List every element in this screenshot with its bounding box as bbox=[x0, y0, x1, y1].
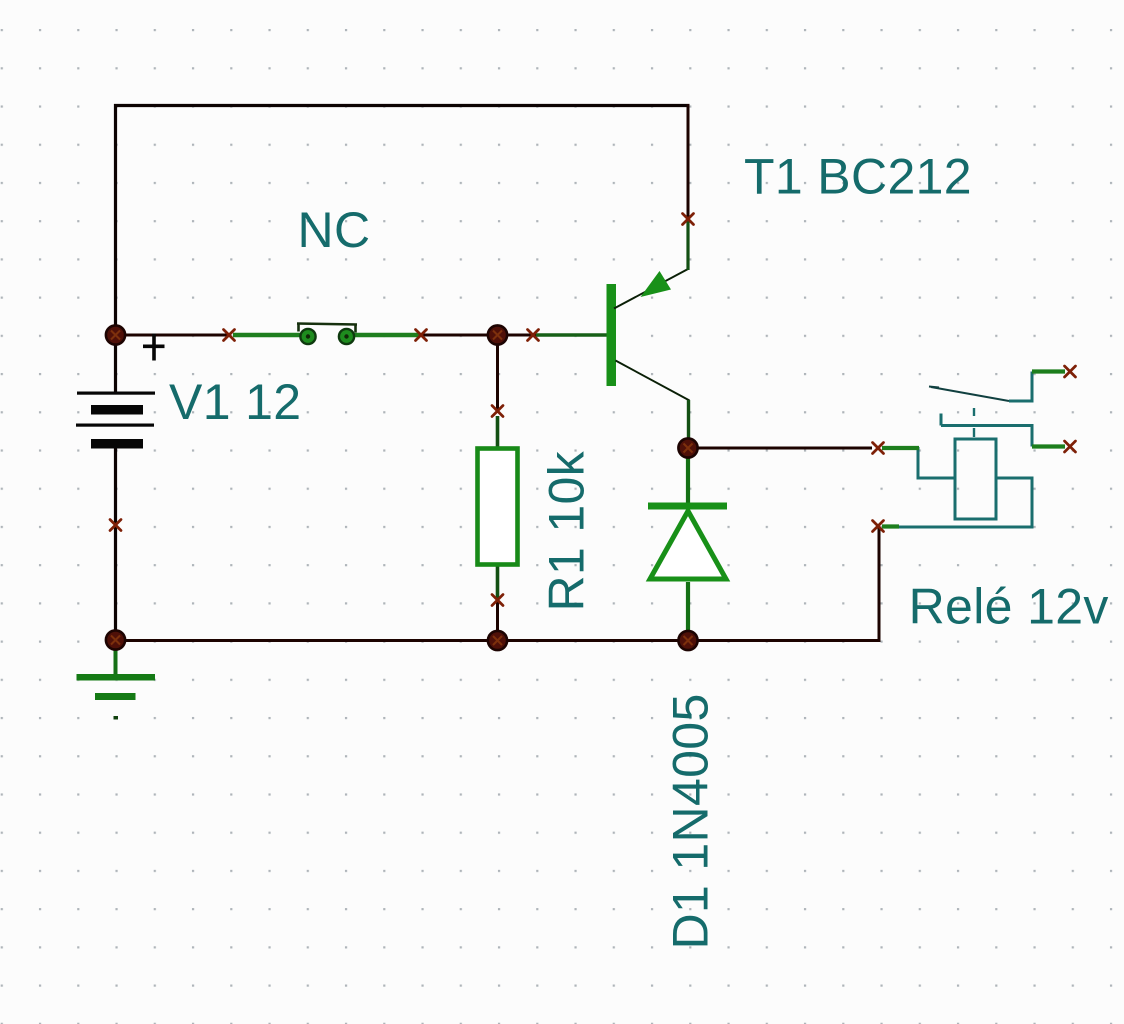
transistor emitter arrow bbox=[641, 271, 672, 297]
wire top horizontal bbox=[114, 104, 690, 107]
svg-text:V1 12: V1 12 bbox=[169, 374, 301, 430]
svg-text:Relé 12v: Relé 12v bbox=[909, 579, 1109, 635]
battery V1 bbox=[76, 392, 155, 449]
diode D1 leads bbox=[686, 448, 690, 503]
junction node diode bottom bbox=[678, 631, 697, 650]
transistor collector diagonal bbox=[616, 361, 690, 401]
svg-text:R1 10k: R1 10k bbox=[539, 450, 595, 611]
battery plus sign bbox=[143, 334, 165, 361]
pin x marks bbox=[224, 330, 235, 341]
transistor collector lead green bbox=[687, 400, 690, 449]
ground bar 1 bbox=[77, 674, 156, 681]
switch lever bar bbox=[297, 324, 357, 333]
diode D1 cathode bar bbox=[648, 503, 727, 510]
wire top-right vertical to emitter pin bbox=[687, 104, 690, 219]
wire battery junction to switch bbox=[116, 334, 230, 337]
wire switch to junction node B bbox=[421, 334, 537, 337]
ground bar 2 bbox=[95, 693, 136, 700]
ground stub bbox=[114, 648, 118, 675]
switch NC green wire right bbox=[353, 333, 419, 338]
diode D1 triangle bbox=[650, 511, 726, 579]
svg-text:T1 BC212: T1 BC212 bbox=[744, 149, 972, 205]
switch NC green wire left bbox=[233, 333, 301, 338]
relay left lead teal bbox=[918, 447, 955, 478]
ground bar 3 dot bbox=[114, 716, 119, 720]
wire battery minus down bbox=[114, 448, 117, 640]
wire bottom bus bbox=[116, 639, 880, 642]
wire bottom-right up to relay coil bbox=[878, 527, 881, 642]
resistor R1 leads bbox=[496, 416, 500, 447]
relay left stub green bbox=[882, 446, 919, 450]
wire battery plus down from junction bbox=[114, 335, 117, 392]
transistor emitter lead green bbox=[686, 221, 689, 270]
relay contact arm to pin bbox=[1009, 372, 1032, 402]
relay contact arm diagonal bbox=[929, 387, 1009, 402]
relay fixed contact bbox=[941, 414, 1032, 447]
resistor R1 body bbox=[478, 449, 518, 565]
junction node B (switch/R1/base) bbox=[488, 325, 507, 344]
relay bottom stub green bbox=[882, 524, 899, 528]
wire top-left vertical V+ bbox=[114, 104, 117, 335]
junction node collector/diode/relay bbox=[678, 438, 697, 457]
relay top stub green bbox=[1032, 369, 1065, 373]
svg-text:D1 1N4005: D1 1N4005 bbox=[663, 693, 719, 949]
relay right lead teal bbox=[898, 478, 1032, 527]
relay actuator dashes bbox=[973, 408, 975, 437]
switch contact circle right bbox=[339, 329, 354, 344]
junction node ground bbox=[106, 630, 125, 649]
switch contact circle left bbox=[300, 329, 315, 344]
wire collector junction to relay bbox=[688, 447, 872, 450]
wire base green segment bbox=[536, 333, 607, 337]
transistor emitter diagonal bbox=[614, 269, 688, 309]
svg-text:NC: NC bbox=[298, 202, 371, 258]
relay bottom-right stub green bbox=[1032, 444, 1065, 448]
relay coil rect bbox=[955, 439, 996, 519]
junction node R1 bottom bbox=[488, 631, 507, 650]
transistor T1 base bar bbox=[607, 284, 617, 386]
wire junction B down to R1 pin bbox=[496, 335, 499, 411]
junction node battery/switch bbox=[106, 325, 125, 344]
wire R1 bottom pin to bottom bus bbox=[496, 600, 499, 641]
